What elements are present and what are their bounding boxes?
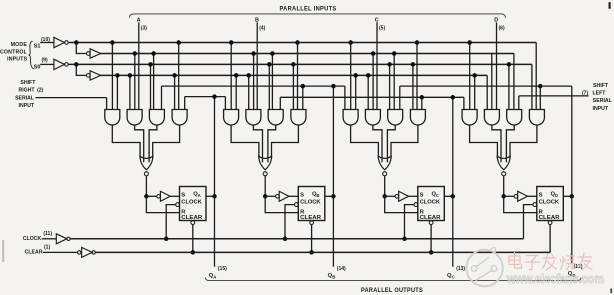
svg-text:CLOCK: CLOCK: [539, 200, 560, 206]
svg-text:(9): (9): [42, 58, 48, 64]
svg-text:S0: S0: [34, 64, 41, 70]
svg-text:CLEAR: CLEAR: [300, 215, 321, 221]
svg-text:(2): (2): [37, 88, 43, 94]
svg-text:C: C: [452, 275, 455, 280]
svg-text:(14): (14): [337, 266, 346, 272]
svg-text:RIGHT: RIGHT: [18, 88, 35, 94]
svg-text:S: S: [420, 193, 424, 199]
svg-text:S: S: [300, 193, 304, 199]
svg-text:SHIFT: SHIFT: [20, 80, 36, 86]
svg-text:CLEAR: CLEAR: [181, 215, 202, 221]
svg-text:A: A: [213, 275, 216, 280]
svg-text:CLOCK: CLOCK: [181, 200, 202, 206]
svg-text:SHIFT: SHIFT: [593, 83, 609, 89]
svg-text:(1): (1): [44, 245, 50, 251]
svg-text:INPUT: INPUT: [19, 103, 35, 109]
svg-text:MODE: MODE: [11, 42, 28, 48]
svg-text:www.elecfans.com: www.elecfans.com: [506, 272, 604, 286]
svg-text:CLOCK: CLOCK: [300, 200, 321, 206]
svg-text:CLEAR: CLEAR: [25, 250, 43, 256]
svg-text:B: B: [332, 275, 335, 280]
svg-text:(11): (11): [43, 231, 52, 237]
svg-text:(15): (15): [218, 266, 227, 272]
svg-text:(3): (3): [141, 25, 147, 31]
svg-text:INPUT: INPUT: [593, 106, 609, 112]
svg-text:(5): (5): [379, 25, 385, 31]
svg-text:CLOCK: CLOCK: [420, 200, 441, 206]
svg-text:INPUTS: INPUTS: [7, 56, 28, 62]
svg-text:CLEAR: CLEAR: [539, 215, 560, 221]
svg-text:SERIAL: SERIAL: [593, 98, 613, 104]
svg-text:PARALLEL OUTPUTS: PARALLEL OUTPUTS: [361, 288, 423, 294]
svg-text:(4): (4): [259, 25, 265, 31]
svg-text:A: A: [198, 193, 201, 198]
svg-text:PARALLEL INPUTS: PARALLEL INPUTS: [280, 7, 337, 13]
svg-text:B: B: [316, 193, 319, 198]
svg-text:SERIAL: SERIAL: [15, 95, 35, 101]
svg-text:(6): (6): [499, 25, 505, 31]
svg-text:(13): (13): [456, 266, 465, 272]
svg-text:CONTROL: CONTROL: [0, 49, 28, 55]
svg-text:S: S: [181, 193, 185, 199]
svg-text:(10): (10): [41, 37, 50, 43]
svg-text:S1: S1: [34, 44, 41, 50]
svg-text:D: D: [555, 193, 558, 198]
svg-text:LEFT: LEFT: [593, 90, 607, 96]
svg-text:CLEAR: CLEAR: [420, 215, 441, 221]
svg-text:S: S: [539, 193, 543, 199]
svg-text:CLOCK: CLOCK: [23, 236, 42, 242]
svg-text:C: C: [436, 193, 439, 198]
